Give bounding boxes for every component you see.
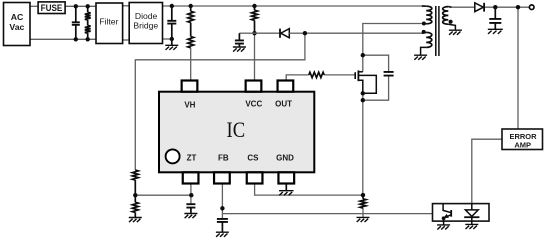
svg-text:GND: GND <box>276 154 294 163</box>
opto LED <box>465 210 478 217</box>
junction VCC node <box>252 31 256 35</box>
IC pin ZT (bottom) <box>183 172 199 183</box>
opto phototransistor emitter <box>446 215 452 218</box>
wire CS pin to sense resistor <box>255 183 363 195</box>
ground VCC capacitor <box>233 47 246 52</box>
wire FB to optocoupler <box>222 213 432 215</box>
wire snubber loop <box>363 55 389 72</box>
MOSFET Q1 channel bar <box>357 70 359 81</box>
junction X-cap top <box>74 4 78 8</box>
startup resistor lower (VH) <box>190 23 192 37</box>
ZT filter capacitor <box>186 204 195 207</box>
output capacitor <box>494 7 496 19</box>
svg-text:OUT: OUT <box>275 100 292 109</box>
wire primary bottom lead <box>425 23 428 25</box>
ground ZT divider <box>129 218 142 223</box>
svg-text:Bridge: Bridge <box>133 20 158 30</box>
wire fuse to filter (hot) <box>62 5 97 7</box>
wire bridge negative to bulk cap <box>163 38 172 40</box>
bulk capacitor <box>171 6 173 21</box>
FB capacitor <box>217 219 228 222</box>
wire secondary to output diode <box>452 6 475 8</box>
wire AC hot to fuse <box>30 5 39 7</box>
junction snubber bottom node <box>361 98 365 102</box>
wire output to error amp <box>517 7 519 129</box>
VCC capacitor <box>238 33 240 40</box>
MOSFET Q1 source link <box>358 80 363 93</box>
wire MOSFET source down to CS node <box>362 93 364 195</box>
ZT divider resistor lower <box>134 195 136 202</box>
junction CS node <box>361 193 365 197</box>
discharge resistor upper <box>87 6 89 12</box>
IC pin VH (top) <box>182 81 198 92</box>
svg-text:IC: IC <box>227 117 246 142</box>
IC pin OUT (top) <box>278 81 294 92</box>
wire ZT sense from aux node <box>135 33 305 170</box>
svg-text:Filter: Filter <box>99 17 118 27</box>
wire OUT pin to gate resistor <box>286 75 309 81</box>
IC pin VCC (top) <box>246 81 262 92</box>
ground ZT capacitor <box>184 214 197 219</box>
IC pin FB (bottom) <box>214 172 230 183</box>
output rectifier diode <box>475 3 484 12</box>
snubber capacitor <box>384 72 394 76</box>
current sense resistor <box>360 199 366 208</box>
svg-text:VCC: VCC <box>245 100 262 109</box>
svg-text:Diode: Diode <box>135 11 158 21</box>
ground opto transistor <box>437 225 450 230</box>
svg-text:AMP: AMP <box>514 140 531 149</box>
wire gate resistor to MOSFET gate <box>324 74 355 76</box>
junction X-cap bottom <box>74 37 78 41</box>
transformer aux winding <box>426 32 432 47</box>
wire HV rail bridge to transformer primary <box>163 5 422 7</box>
junction VCC resistor at rail <box>252 4 256 8</box>
transformer secondary winding <box>443 7 449 25</box>
junction FB node <box>220 206 224 210</box>
ground output capacitor <box>488 29 503 34</box>
wire ZT pin down <box>190 183 192 204</box>
wire primary bottom to drain <box>363 24 426 72</box>
ZT divider resistor upper <box>132 170 138 180</box>
diode bridge box <box>129 3 162 44</box>
MOSFET Q1 drain link <box>358 71 363 73</box>
junction opto emitter node <box>442 216 446 220</box>
ground sense resistor <box>357 217 370 222</box>
phase dot primary <box>422 22 426 26</box>
wire secondary bottom to ground <box>448 24 455 30</box>
filter box <box>96 3 123 44</box>
MOSFET Q1 body link <box>358 75 376 93</box>
svg-text:FUSE: FUSE <box>41 3 63 13</box>
wire AC neutral to filter <box>30 38 96 40</box>
wire filter to bridge (top) <box>123 5 130 7</box>
wire VCC node to rectifier diode <box>255 32 281 34</box>
transformer primary winding <box>426 6 432 24</box>
AC source box <box>4 3 31 46</box>
junction startup chain at rail <box>189 4 193 8</box>
wire VCC node to VCC cap <box>239 32 254 34</box>
ground aux winding <box>414 55 427 60</box>
wire CS node resistor stub <box>362 208 364 217</box>
opto phototransistor base bar <box>450 210 452 217</box>
wire ZT divider tap to ZT pin <box>135 194 191 196</box>
junction output cap node <box>493 5 497 9</box>
IC U1 body <box>159 92 314 173</box>
junction bulk cap bottom <box>170 37 174 41</box>
svg-text:Vac: Vac <box>9 22 24 32</box>
VCC rectifier diode <box>279 29 281 38</box>
wire aux bottom to ground <box>421 47 427 55</box>
X-capacitor across line <box>75 6 77 22</box>
junction ZT pin node <box>189 193 193 197</box>
junction output sense node <box>516 5 520 9</box>
gate resistor <box>309 72 324 77</box>
wire VCC node to aux winding <box>305 32 422 34</box>
wire FB pin down <box>221 183 223 219</box>
junction aux node <box>303 31 307 35</box>
ground bulk capacitor <box>165 45 178 50</box>
IC pin CS (bottom) <box>247 172 263 183</box>
junction bulk cap top <box>170 4 174 8</box>
output terminal <box>529 5 534 10</box>
junction resistor top <box>86 4 90 8</box>
wire GND pin down <box>285 183 287 190</box>
junction ZT divider tap <box>133 193 137 197</box>
ground FB capacitor <box>216 232 229 237</box>
startup resistor upper (VH) <box>188 11 194 22</box>
opto emitter wire down <box>443 218 445 225</box>
svg-text:FB: FB <box>218 154 229 163</box>
junction source node <box>361 91 365 95</box>
fuse F1 box <box>38 2 65 14</box>
error amp box <box>502 129 543 150</box>
svg-text:VH: VH <box>184 100 195 109</box>
VCC dropper resistor <box>254 6 256 10</box>
wire VCC node down to VCC pin <box>254 33 256 80</box>
IC pin GND (bottom) <box>278 172 294 183</box>
ground GND pin <box>279 191 294 196</box>
phase dot secondary <box>449 20 453 24</box>
wire diode to aux node <box>289 32 305 34</box>
ground secondary winding <box>449 30 462 35</box>
junction drain node <box>361 53 365 57</box>
opto phototransistor collector <box>443 204 451 213</box>
IC pin1 marker circle <box>166 149 180 163</box>
svg-text:ZT: ZT <box>187 154 197 163</box>
svg-text:CS: CS <box>247 154 259 163</box>
ground opto LED <box>465 224 478 229</box>
discharge resistor lower <box>87 20 89 26</box>
wire filter to bridge (bottom) <box>123 39 130 41</box>
phase dot aux <box>422 30 426 34</box>
optocoupler box <box>433 204 490 222</box>
wire error amp to opto LED <box>472 139 502 210</box>
wire output diode to terminal <box>485 6 529 8</box>
svg-text:AC: AC <box>11 12 24 22</box>
transformer core <box>436 6 439 56</box>
junction resistor bottom <box>86 37 90 41</box>
opto LED anode wire <box>471 204 473 210</box>
MOSFET Q1 gate bar <box>354 72 356 79</box>
